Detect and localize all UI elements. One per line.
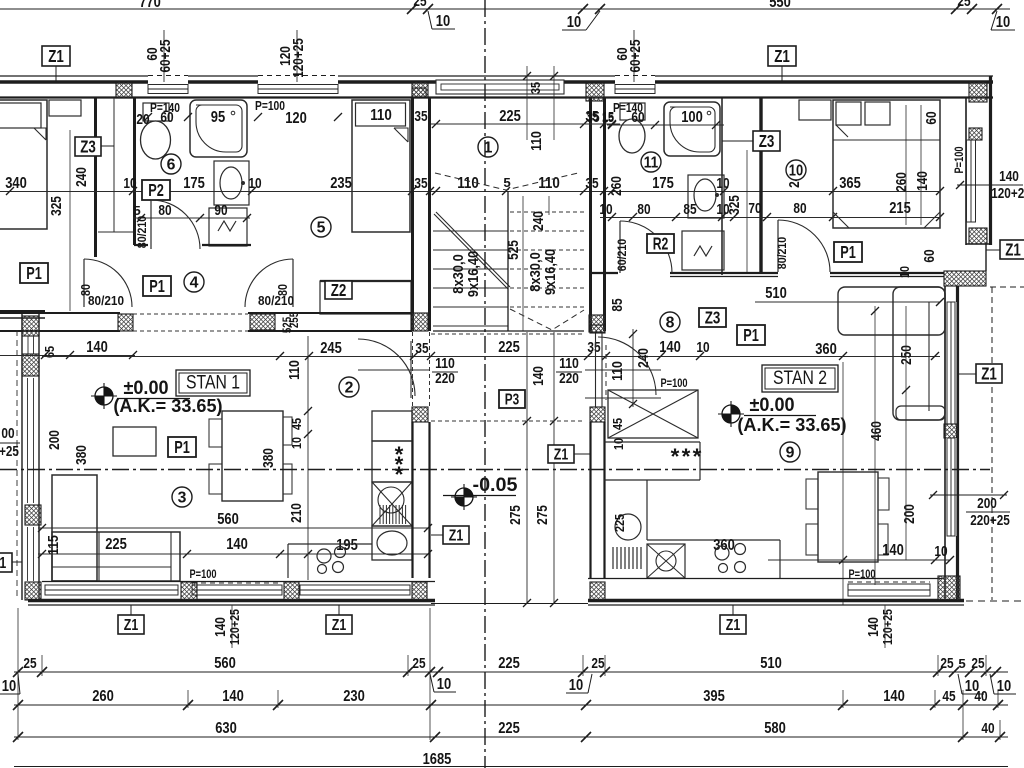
kitchen oven STAN1: [372, 526, 412, 560]
svg-text:70: 70: [748, 201, 761, 217]
dim line y560 STAN2 (140/10): [768, 559, 950, 561]
window dim label 120/120+25 above bedroom window STAN1: [296, 30, 298, 82]
kitchen fridge box with stars STAN2: [604, 441, 700, 443]
svg-text:STAN 1: STAN 1: [186, 372, 240, 394]
svg-text:110: 110: [370, 107, 392, 124]
sofa STAN1 L-shape: [52, 475, 97, 581]
label P3 porch: [499, 390, 525, 408]
dashed bottom-right continuation: [966, 600, 1024, 602]
svg-text:P1: P1: [26, 263, 42, 283]
svg-text:200: 200: [47, 430, 63, 450]
svg-text:35: 35: [587, 340, 600, 356]
bed bedroom10: [833, 100, 940, 228]
svg-text:60/210: 60/210: [615, 238, 629, 271]
svg-text:110: 110: [529, 131, 545, 151]
window W3 stairwell (top wall): [436, 80, 564, 94]
wall: STAN1 hall south wall solid segments: [0, 312, 120, 314]
svg-text:630: 630: [215, 720, 237, 737]
svg-text:120+25: 120+25: [991, 186, 1024, 202]
label P2 with box: [142, 180, 170, 200]
window bottom W5a (terrace door STAN1): [45, 585, 178, 595]
door R2: leaf + arc: [619, 221, 621, 273]
room number 4: [184, 272, 204, 292]
wall: bath2+hall south: [590, 272, 618, 274]
svg-text:110: 110: [457, 175, 479, 192]
window dim label 60/60+25 above bath window STAN2: [633, 30, 635, 82]
svg-text:220: 220: [559, 371, 579, 387]
wall: bottom interior face STAN2: [588, 578, 944, 580]
svg-text:R2: R2: [653, 234, 669, 254]
window W2 P=100 (bedroom STAN1, top wall): [258, 85, 338, 94]
svg-text:Z1: Z1: [981, 364, 997, 384]
room number 5: [311, 217, 331, 237]
bathroom1 south wall with door opening: [134, 244, 148, 246]
hatched pier stair wall bottom: [411, 313, 428, 331]
hatched wall pier (top wall x412): [412, 82, 428, 98]
svg-text:110: 110: [610, 361, 626, 381]
svg-text:460: 460: [869, 421, 885, 441]
hatched wall band (south of bedroom STAN2): [944, 271, 986, 286]
svg-text:45: 45: [289, 418, 304, 430]
svg-text:25: 25: [971, 656, 984, 672]
wall: stairwell right (STAN2 west wall): [589, 97, 592, 331]
window west wall 115: [27, 527, 29, 581]
bedroom10 dim line y302 (510): [755, 301, 940, 303]
svg-text:11: 11: [644, 154, 659, 171]
svg-text:Z1: Z1: [1005, 240, 1021, 260]
svg-text:550: 550: [769, 0, 791, 11]
svg-text:(A.K.= 33.65): (A.K.= 33.65): [113, 395, 222, 416]
svg-text:10: 10: [997, 678, 1012, 695]
svg-text:Z1: Z1: [554, 447, 569, 464]
room number 8: [660, 312, 680, 332]
svg-text:85: 85: [683, 202, 696, 218]
dim ext line x70: [69, 130, 71, 311]
svg-text:220: 220: [435, 371, 455, 387]
washing machine STAN2: [682, 231, 724, 270]
hatched pier right wall y228: [969, 228, 987, 244]
svg-text:200: 200: [902, 504, 918, 524]
svg-text:Z1: Z1: [726, 617, 741, 634]
label Z1 bottom (x720): [720, 615, 746, 634]
svg-text:25: 25: [413, 0, 426, 10]
svg-text:245: 245: [320, 340, 342, 357]
hatched pier x250: [250, 314, 275, 330]
svg-text:510: 510: [765, 285, 787, 302]
svg-text:2: 2: [345, 379, 354, 396]
room number 2: [339, 377, 359, 397]
svg-text:60+25: 60+25: [158, 40, 174, 73]
stair treads lower flight (solid): [433, 230, 508, 232]
wall: top exterior dashed over window openings: [148, 75, 188, 77]
svg-text:P=100: P=100: [952, 146, 966, 173]
svg-text:525: 525: [506, 240, 522, 260]
dashed roof/terrace line right: [990, 286, 1024, 288]
svg-text:60: 60: [631, 110, 644, 126]
svg-text:140: 140: [882, 542, 904, 559]
washing machine circle STAN2 kitchen: [615, 514, 641, 540]
wall: top exterior, outer edge line: [0, 75, 148, 77]
svg-text:225: 225: [498, 339, 520, 356]
svg-text:225: 225: [498, 720, 520, 737]
label Z1 porch left: [443, 526, 469, 544]
svg-text:215: 215: [889, 200, 911, 217]
svg-text:Z1: Z1: [774, 46, 790, 66]
washing machine STAN1: [209, 208, 247, 246]
wall: bath2 east thin: [721, 98, 723, 275]
window west wall small: [27, 336, 29, 354]
svg-text:40: 40: [974, 689, 987, 705]
label Z1 top-left with leader: [42, 46, 70, 66]
svg-text:140: 140: [226, 536, 248, 553]
label Z1 bottom (x118): [118, 615, 144, 634]
window dim label 60/60+25 above bath window STAN1: [163, 30, 165, 82]
svg-text:25: 25: [23, 656, 36, 672]
washbasin STAN2: [688, 175, 724, 218]
dashed wall segment at STAN1 entry: [412, 332, 414, 406]
stair direction dashed V (top): [435, 173, 578, 190]
dim line y554 (225/140/195): [38, 553, 430, 555]
room number 6: [161, 154, 181, 174]
svg-text:10: 10: [123, 176, 136, 192]
main interior dim line y191 across plan: [0, 191, 940, 193]
closet strip Z3 lines: [113, 98, 115, 232]
svg-text:P1: P1: [149, 276, 165, 296]
svg-text:35: 35: [414, 109, 427, 125]
hatched pier stair wall top: [412, 88, 426, 97]
window: living STAN2 right wall lower (200): [946, 438, 957, 536]
svg-text:10: 10: [2, 678, 17, 695]
label Z3 left with leader: [75, 137, 101, 156]
svg-text:-0.05: -0.05: [473, 474, 518, 496]
svg-text:Z1: Z1: [332, 617, 347, 634]
svg-text:P=100: P=100: [661, 376, 688, 390]
svg-text:60: 60: [924, 111, 940, 124]
svg-text:1685: 1685: [423, 751, 452, 768]
svg-text:175: 175: [183, 175, 205, 192]
nightstand bedroom10: [799, 100, 831, 120]
svg-text:340: 340: [5, 175, 27, 192]
toilet STAN1: [143, 103, 169, 121]
svg-text:25: 25: [957, 0, 970, 10]
svg-text:115: 115: [46, 535, 62, 555]
svg-text:Z1: Z1: [0, 555, 6, 572]
bath2 dim line y217 (10/80/85/10/70/80/215): [600, 217, 940, 219]
door hall->bedroom1: leaf + arc: [83, 259, 85, 307]
svg-text:395: 395: [703, 688, 725, 705]
dining table STAN1: [222, 411, 283, 501]
svg-text:325: 325: [727, 195, 743, 215]
svg-text:35: 35: [586, 110, 599, 126]
porch bottom edge: [431, 603, 588, 605]
svg-text:140: 140: [659, 339, 681, 356]
svg-text:60: 60: [160, 110, 173, 126]
dimension row D y766 (1685): [14, 766, 1008, 768]
wall: right exterior (bedroom STAN2): [989, 76, 992, 245]
svg-text:*: *: [682, 444, 691, 469]
stair treads upper flight (dashed): [510, 211, 584, 213]
svg-text:80/210: 80/210: [775, 236, 789, 269]
room number 10: [786, 160, 806, 180]
svg-text:*: *: [395, 462, 404, 487]
svg-text:10: 10: [569, 677, 584, 694]
svg-text:360: 360: [713, 537, 735, 554]
svg-text:580: 580: [764, 720, 786, 737]
svg-text:175: 175: [652, 175, 674, 192]
svg-text:00: 00: [1, 426, 14, 442]
svg-text:STAN 2: STAN 2: [773, 367, 827, 389]
level mark ±0.00 STAN2: [722, 405, 740, 423]
nightstand bedroom1: [49, 100, 81, 116]
label Z1 left wall cut: [0, 553, 12, 572]
stair bottom landing edge: [433, 330, 584, 332]
dim 45/10/380/210 rotated (right of dining): [307, 336, 309, 580]
svg-text:250: 250: [899, 345, 915, 365]
label P1 living STAN1: [168, 437, 196, 457]
stair direction dashed V (bottom): [510, 309, 584, 330]
hatched wall pier (top wall NE corner): [969, 82, 987, 102]
wall: bottom exterior thick: [28, 599, 435, 602]
svg-text:90: 90: [214, 203, 227, 219]
svg-text:5: 5: [958, 656, 965, 671]
dining chairs STAN2: [806, 479, 838, 509]
svg-text:360: 360: [815, 341, 837, 358]
svg-text:225: 225: [499, 108, 521, 125]
svg-text:P1: P1: [840, 242, 856, 262]
porch extension lines: [526, 332, 528, 604]
pillows bedroom10: [836, 102, 861, 125]
dim 200/220+25 right margin lower: [930, 494, 1007, 496]
svg-text:225: 225: [612, 514, 627, 532]
svg-text:240: 240: [636, 348, 652, 368]
bed: bedroom5 STAN1: [352, 100, 410, 232]
hatched pier right wall y424: [944, 424, 958, 438]
svg-text:P1: P1: [743, 325, 759, 345]
radiator STAN2 kitchen: [612, 547, 614, 569]
svg-text:225: 225: [498, 655, 520, 672]
svg-text:260: 260: [609, 176, 625, 196]
wall: stairwell left (STAN1 east wall): [411, 97, 414, 331]
coffee table STAN1: [113, 427, 156, 456]
dim line y356 across both units: [42, 356, 940, 358]
bath1 dim line y190 texts (10/175/10 above) and y218 (5/80/90): [133, 217, 250, 219]
extension lines to bottom dims: [17, 608, 19, 740]
hatched pier SE corner: [938, 576, 960, 600]
porch extension lines above top wall: [526, 66, 528, 140]
entry door STAN1: arc + lines: [358, 339, 415, 396]
svg-text:45: 45: [610, 418, 625, 430]
svg-text:100: 100: [681, 109, 703, 126]
hatched wall pier (top wall x586): [586, 83, 604, 101]
svg-text:770: 770: [139, 0, 161, 11]
svg-text:Z1: Z1: [48, 46, 64, 66]
svg-text:10: 10: [248, 176, 261, 192]
hatched pier west wall y505: [25, 505, 41, 525]
hatched pier stair right wall bottom: [589, 315, 605, 332]
svg-text:Z1: Z1: [449, 528, 464, 545]
dimension row A y672 (25/560/25/225/25/510/25...): [14, 671, 1008, 673]
bed: bedroom1 STAN1 (top-left, cut by canvas): [0, 100, 47, 229]
wall: west terrace wall lines: [0, 310, 45, 312]
svg-text:8x30,0: 8x30,0: [528, 252, 544, 292]
svg-text:95: 95: [211, 109, 226, 126]
svg-text:10: 10: [996, 14, 1011, 31]
svg-text:80/210: 80/210: [88, 293, 124, 308]
svg-text:80/210: 80/210: [258, 293, 294, 308]
hatched pier STAN1 entry south: [412, 407, 428, 422]
svg-text:*: *: [671, 444, 680, 469]
svg-text:+25: +25: [0, 444, 19, 460]
svg-text:260: 260: [894, 172, 910, 192]
pillow bedroom1: [0, 103, 41, 128]
hatched pier right wall x969 y128: [969, 128, 982, 140]
wardrobe with X (STAN2 entry): [608, 390, 698, 438]
label P1 bedroom10: [834, 242, 862, 262]
svg-text:525: 525: [280, 317, 294, 334]
cooktop burners STAN1: [317, 549, 331, 563]
door hall->bedroom5: leaf + arc: [292, 259, 294, 307]
svg-text:365: 365: [839, 175, 861, 192]
svg-text:325: 325: [49, 196, 65, 216]
sofa STAN2 L-shape: [838, 287, 945, 335]
svg-text:P3: P3: [505, 392, 520, 409]
svg-text:5: 5: [133, 203, 140, 218]
stair room number 1: [478, 137, 498, 157]
window W1 P=140 (bath STAN1, top wall): [148, 85, 188, 94]
hatched piers bottom wall: [181, 582, 197, 600]
svg-text:140: 140: [531, 366, 547, 386]
svg-text:240: 240: [74, 167, 90, 187]
svg-text:140: 140: [999, 169, 1019, 185]
svg-text:120+25: 120+25: [227, 609, 242, 645]
level mark -0.05 porch: [455, 488, 473, 506]
wall: bedroom10 west thick: [759, 98, 762, 272]
dashed terrace overhang line left: [16, 330, 18, 600]
door bathroom1: leaf + swing arc: [150, 200, 152, 249]
window: bedroom STAN2 right wall P=100: [967, 140, 976, 222]
svg-text:4: 4: [190, 274, 199, 291]
kitchen sink unit STAN1: [372, 482, 412, 526]
label Z3 STAN2 hall: [699, 308, 726, 327]
window bottom W5 P=100: [192, 585, 282, 595]
svg-text:8: 8: [666, 314, 675, 331]
entry door STAN2: jambs, arc: [595, 333, 597, 407]
svg-text:Z2: Z2: [331, 280, 347, 300]
svg-text:35: 35: [415, 341, 428, 357]
dim line y528 (560): [38, 527, 430, 529]
svg-text:40: 40: [981, 721, 994, 737]
wall opening dashed (hall to living): [133, 313, 248, 315]
window west wall 200: [27, 378, 29, 503]
pillow bedroom5: [356, 103, 406, 126]
svg-text:120: 120: [285, 110, 307, 127]
svg-text:3: 3: [178, 489, 187, 506]
svg-text:80: 80: [158, 203, 171, 219]
svg-text:25: 25: [940, 656, 953, 672]
window bottom W7 P=100 STAN2: [848, 584, 930, 596]
dim line y355 left (65/140): [0, 355, 135, 357]
svg-text:10: 10: [289, 437, 304, 449]
hatched pier west wall y316: [22, 316, 39, 336]
toilet STAN2: [620, 103, 645, 120]
svg-text:560: 560: [214, 655, 236, 672]
dimension row B y705 (260/140/230/395/140/45/40): [14, 704, 1008, 706]
door bedroom10: leaf + arc: [777, 220, 779, 272]
label Z1 bottom (x326): [326, 615, 352, 634]
svg-text:380: 380: [261, 448, 277, 468]
svg-text:20: 20: [136, 112, 149, 128]
svg-text:10: 10: [567, 14, 582, 31]
svg-text:8x30,0: 8x30,0: [451, 254, 467, 294]
room number 3: [172, 487, 192, 507]
dining chairs STAN1: [209, 419, 243, 447]
wall: bedroom1 / closet partition: [94, 97, 97, 257]
svg-text:35: 35: [414, 176, 427, 192]
ext line x843: [842, 362, 844, 605]
svg-text:80: 80: [793, 201, 806, 217]
svg-text:Z1: Z1: [124, 617, 139, 634]
svg-text:110: 110: [559, 356, 579, 372]
label STAN 2 (double box): [762, 365, 838, 392]
svg-text:35: 35: [528, 82, 543, 94]
svg-text:25: 25: [591, 656, 604, 672]
svg-text:Z3: Z3: [705, 308, 721, 328]
wall: STAN1 east wall lower (kitchen): [411, 422, 413, 578]
svg-text:9x16,40: 9x16,40: [543, 249, 559, 295]
svg-text:9x16,40: 9x16,40: [466, 251, 482, 297]
svg-text:10: 10: [599, 202, 612, 218]
hatched wall pier (top wall x116): [116, 82, 132, 98]
svg-text:240: 240: [531, 211, 547, 231]
svg-text:*: *: [693, 444, 702, 469]
svg-text:230: 230: [343, 688, 365, 705]
wall: top interior face: [0, 96, 993, 98]
window W4 P=140 (bath STAN2, top wall): [615, 85, 655, 94]
wall: top exterior thick face: [0, 80, 148, 83]
centreline horizontal (dash-dot): [0, 469, 990, 471]
label STAN 1 (double box): [176, 370, 250, 396]
label Z1 top-right with leader: [768, 46, 796, 66]
wall step at bedroom SE corner: [966, 243, 990, 245]
wall: right exterior (living STAN2): [944, 286, 946, 600]
label Z1 right wall (y250): [1000, 240, 1024, 259]
dimension row C y737 (630/225/580/40): [14, 736, 1008, 738]
stair dim line y124 (225/35/15): [431, 123, 620, 125]
level mark ±0.00 STAN1: [95, 387, 113, 405]
svg-text:80/210: 80/210: [135, 215, 149, 248]
svg-text:Z3: Z3: [80, 137, 96, 157]
wall: bedroom10 south: [830, 272, 944, 274]
svg-text:195: 195: [336, 537, 358, 554]
label Z1 porch right: [548, 445, 574, 463]
dining table STAN2: [818, 472, 878, 562]
window bottom W6: [300, 585, 410, 595]
svg-text:P2: P2: [148, 180, 164, 200]
washbasin STAN1: [214, 161, 249, 205]
wardrobe Z2 bedroom5: [320, 280, 411, 282]
svg-text:140: 140: [222, 688, 244, 705]
kitchen sink STAN2: [647, 544, 685, 578]
svg-text:140: 140: [86, 339, 108, 356]
svg-text:10: 10: [696, 340, 709, 356]
svg-text:10: 10: [716, 176, 729, 192]
room number 11: [641, 152, 661, 172]
kitchen counter south (cooktop) STAN1: [288, 543, 372, 545]
label Z2: [325, 281, 352, 299]
hatched pier west wall y354: [22, 354, 39, 376]
window: living STAN2 right wall upper (250): [946, 302, 957, 424]
svg-text:275: 275: [508, 505, 524, 525]
